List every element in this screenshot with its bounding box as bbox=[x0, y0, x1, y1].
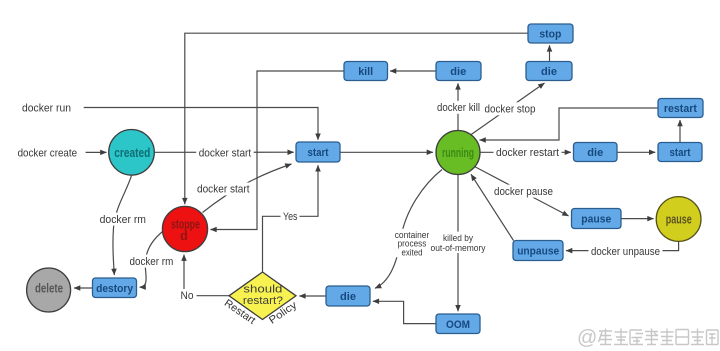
wire restart -> running bbox=[480, 108, 659, 140]
box pause bbox=[572, 209, 622, 229]
svg-text:docker restart: docker restart bbox=[496, 147, 559, 159]
box kill bbox=[344, 62, 388, 81]
box stop bbox=[528, 24, 573, 43]
wire created -> destory curve (docker rm) bbox=[113, 175, 132, 275]
wire die_top -> kill bbox=[390, 70, 436, 72]
svg-text:docker unpause: docker unpause bbox=[591, 246, 660, 258]
svg-text:docker stop: docker stop bbox=[485, 104, 536, 116]
svg-text:running: running bbox=[442, 146, 474, 160]
wire running -> pause_box (docker pause) bbox=[475, 167, 569, 217]
svg-text:docker start: docker start bbox=[197, 184, 250, 196]
svg-text:created: created bbox=[114, 146, 150, 160]
svg-text:Yes: Yes bbox=[283, 211, 298, 223]
svg-text:No: No bbox=[181, 290, 194, 302]
box start mid bbox=[296, 142, 340, 162]
label docker pause bbox=[492, 185, 556, 198]
label docker restart bbox=[494, 146, 562, 159]
node stopped bbox=[162, 206, 207, 251]
svg-text:delete: delete bbox=[35, 282, 63, 296]
svg-text:docker kill: docker kill bbox=[437, 102, 480, 114]
svg-text:docker start: docker start bbox=[199, 148, 252, 160]
box OOM bbox=[436, 314, 480, 334]
wire running -> die_right (docker restart) bbox=[481, 151, 572, 153]
wire running -> die_topright (docker stop) bbox=[471, 83, 545, 135]
svg-text:should: should bbox=[243, 283, 282, 295]
wire running -> die_top (docker kill) bbox=[457, 83, 459, 130]
label docker start (stopped->start) bbox=[195, 183, 253, 196]
wire die_topright -> stop bbox=[549, 45, 551, 61]
box restart bbox=[658, 99, 703, 118]
svg-text:stop: stop bbox=[539, 28, 561, 40]
svg-text:docker run: docker run bbox=[22, 103, 71, 115]
diamond should-restart bbox=[229, 272, 296, 320]
box die right bbox=[574, 143, 618, 162]
label Policy (rotated) bbox=[267, 299, 300, 327]
svg-text:die: die bbox=[541, 66, 557, 78]
wire docker-create -> created bbox=[86, 151, 107, 153]
watermark @juejin bbox=[577, 327, 718, 349]
svg-text:out-of-memory: out-of-memory bbox=[431, 243, 486, 253]
svg-text:unpause: unpause bbox=[517, 246, 559, 258]
svg-text:start: start bbox=[308, 147, 329, 159]
label docker rm (created->destory) bbox=[97, 213, 148, 226]
wire docker-run -> start top bbox=[84, 108, 318, 140]
svg-text:destory: destory bbox=[96, 283, 134, 295]
wire destory -> delete bbox=[74, 287, 93, 289]
svg-text:die: die bbox=[340, 291, 356, 303]
wire created -> start (docker start) bbox=[154, 151, 293, 153]
wire pause_box -> pause_circle bbox=[621, 218, 654, 220]
svg-text:exited: exited bbox=[402, 247, 423, 257]
box destory bbox=[93, 278, 137, 298]
svg-text:die: die bbox=[450, 66, 466, 78]
svg-text:restart?: restart? bbox=[243, 295, 283, 307]
node delete bbox=[27, 268, 71, 312]
svg-text:die: die bbox=[587, 147, 603, 159]
label Yes bbox=[281, 210, 300, 223]
label docker run bbox=[22, 103, 71, 115]
svg-text:docker rm: docker rm bbox=[100, 214, 146, 226]
svg-text:pause: pause bbox=[581, 214, 611, 226]
box start right bbox=[658, 143, 702, 162]
wire die_right -> start_right bbox=[617, 151, 655, 153]
svg-text:OOM: OOM bbox=[446, 319, 470, 331]
svg-text:docker rm: docker rm bbox=[130, 256, 174, 268]
label docker create bbox=[18, 147, 78, 159]
wire die_bottom -> diamond bbox=[299, 295, 326, 297]
label docker start (created->start) bbox=[196, 146, 254, 160]
box die topright bbox=[526, 62, 572, 81]
wire kill -> stopped bbox=[210, 71, 344, 230]
wire stopped -> start curve (docker start) bbox=[203, 164, 292, 213]
wire start_right -> restart bbox=[679, 120, 681, 143]
wire running -> die_bottom curve (container process exited) bbox=[375, 170, 442, 289]
label docker unpause bbox=[589, 245, 663, 258]
box unpause bbox=[513, 241, 563, 261]
box die top bbox=[436, 62, 481, 81]
svg-text:killed by: killed by bbox=[443, 233, 473, 243]
node running bbox=[436, 131, 480, 175]
wire start -> running bbox=[340, 151, 433, 153]
svg-text:restart: restart bbox=[664, 103, 697, 115]
label killed by out-of-memory bbox=[429, 232, 487, 254]
wire stop -> stopped bbox=[185, 33, 528, 204]
label docker kill bbox=[435, 101, 483, 114]
svg-text:pause: pause bbox=[666, 213, 692, 227]
svg-text:kill: kill bbox=[358, 66, 373, 78]
wire running -> OOM (killed by out-of-memory) bbox=[457, 175, 459, 312]
node pause bbox=[656, 197, 701, 242]
wire stopped -> destory curve (docker rm) bbox=[140, 232, 163, 288]
svg-text:d: d bbox=[180, 229, 188, 243]
svg-text:docker create: docker create bbox=[18, 147, 78, 159]
svg-text:start: start bbox=[670, 147, 691, 159]
wire pause_circle -> unpause (docker unpause) bbox=[566, 241, 679, 250]
node created bbox=[109, 130, 155, 176]
svg-text:docker pause: docker pause bbox=[494, 186, 553, 198]
svg-text:@: @ bbox=[577, 327, 597, 349]
label Restart (rotated) bbox=[222, 297, 258, 327]
box die bottom bbox=[326, 286, 370, 306]
wire unpause -> running bbox=[471, 174, 514, 240]
label No bbox=[177, 289, 197, 302]
label docker stop bbox=[482, 102, 538, 115]
label docker rm (stopped->destory) bbox=[127, 255, 176, 268]
label container process exited bbox=[393, 229, 432, 257]
wire diamond Yes -> start bottom bbox=[263, 165, 319, 272]
wire diamond No -> stopped bbox=[184, 255, 229, 296]
wire OOM -> die_bottom bbox=[373, 301, 436, 323]
